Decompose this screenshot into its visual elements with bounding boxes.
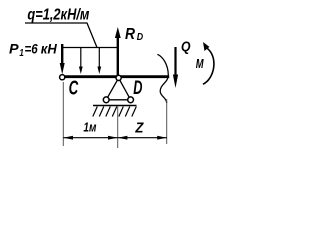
reaction RD arrow — [117, 36, 119, 77]
shear force Q arrow — [174, 47, 176, 77]
dimension line — [63, 137, 167, 139]
svg-text:1: 1 — [19, 48, 24, 59]
node C hinge circle — [60, 75, 65, 80]
svg-text:M: M — [196, 56, 205, 71]
dim arrow left at C — [63, 136, 73, 140]
svg-text:P: P — [9, 41, 19, 57]
distributed load arrow 2 — [98, 48, 100, 69]
leader line from q label — [25, 23, 97, 48]
dim arrows at D — [108, 136, 118, 140]
svg-text:Q: Q — [181, 38, 191, 54]
force P1 arrow — [61, 44, 63, 65]
beam — [65, 75, 169, 78]
ground hatching — [93, 107, 137, 117]
svg-text:кН: кН — [41, 41, 58, 57]
ground line — [93, 105, 137, 107]
svg-text:q=1,2кН/м: q=1,2кН/м — [27, 7, 89, 24]
svg-text:R: R — [125, 26, 136, 43]
svg-text:C: C — [69, 78, 79, 100]
extension line at cut — [166, 99, 168, 144]
distributed load top line — [62, 47, 118, 49]
extension line at C — [62, 82, 64, 146]
svg-text:D: D — [133, 77, 142, 99]
svg-text:D: D — [137, 32, 143, 43]
roller circle right — [128, 97, 134, 103]
dim arrow right at cut — [157, 136, 167, 140]
distributed load arrow 1 — [80, 48, 82, 69]
section cut wavy line — [157, 54, 168, 103]
moment M arc arrow — [203, 48, 214, 85]
extension line at D — [117, 106, 119, 148]
roller circle left — [103, 97, 109, 103]
svg-text:1м: 1м — [83, 121, 97, 135]
svg-text:Z: Z — [135, 120, 145, 136]
svg-text:=6: =6 — [25, 41, 38, 57]
support triangle at D — [106, 78, 130, 100]
pin circle at D apex — [116, 75, 121, 80]
